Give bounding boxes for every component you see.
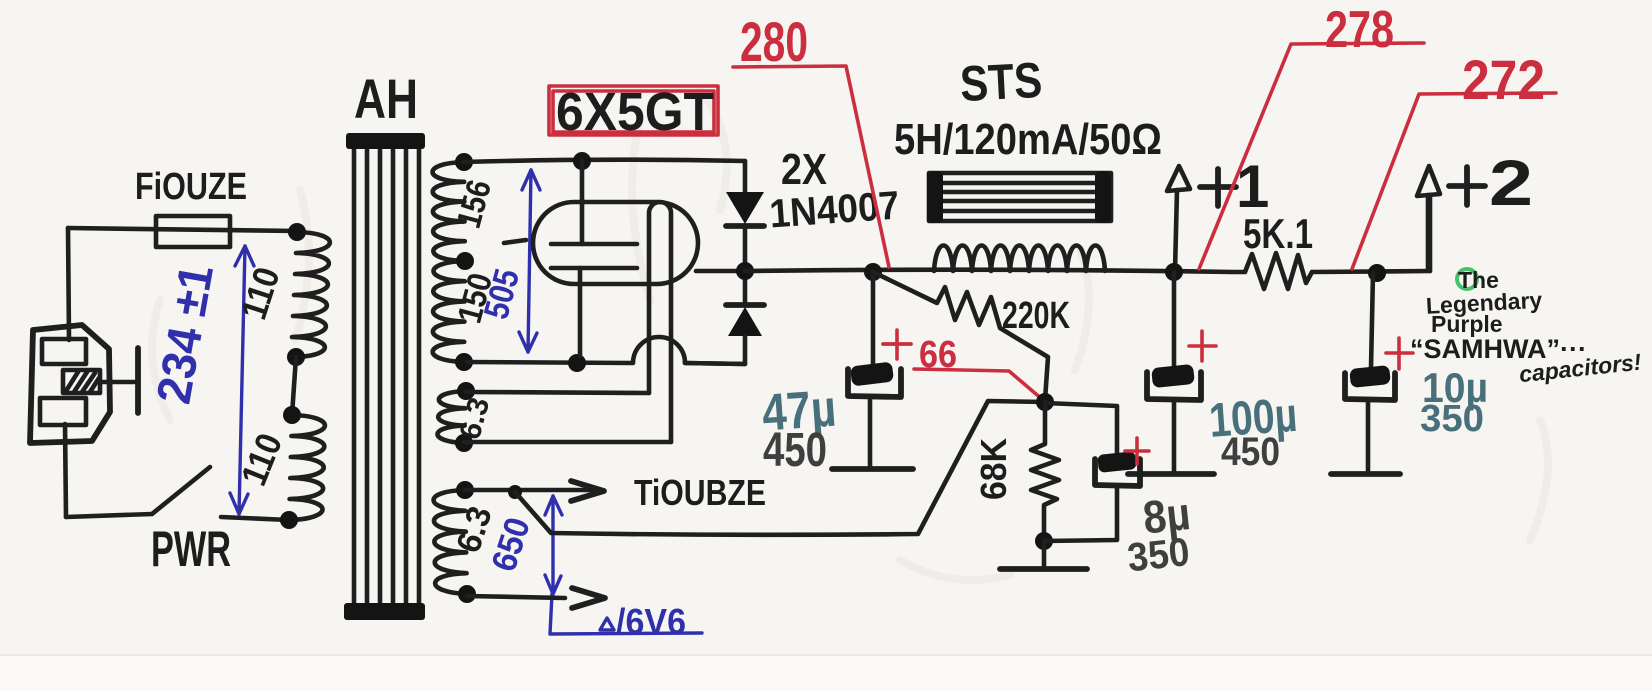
transformer T1 core [344, 133, 425, 620]
choke L1 coil [934, 246, 1105, 272]
capacitor C1 47µ wiring [871, 272, 876, 366]
cathode lead to diode node [696, 269, 745, 274]
svg-text:AH: AH [354, 67, 418, 130]
node bias bottom junction [1035, 532, 1053, 550]
arrowhead 6V6 [572, 588, 605, 608]
svg-text:280: 280 [740, 10, 808, 73]
svg-text:272: 272 [1462, 48, 1545, 111]
capacitor C4 10µ [1349, 365, 1391, 388]
red polarity + (C2) [1125, 438, 1149, 464]
note: The Legendary Purple SAMHWA capacitors [1410, 267, 1643, 387]
blue measurement arrow 505 [519, 170, 540, 352]
long heater wire to bias node [515, 401, 1045, 535]
svg-text:2X: 2X [781, 145, 827, 194]
diode D2 1N4007 [743, 271, 748, 304]
tube anode plate 2 [551, 266, 637, 271]
capacitor C1 47µ [850, 362, 894, 387]
HV secondary lower (150) [433, 261, 465, 362]
anode 2 lead [578, 268, 583, 356]
svg-text:STS: STS [959, 52, 1044, 112]
wire fuse line [68, 228, 297, 231]
blue measurement arrow 650 [545, 496, 702, 634]
rectifier tube V1 6X5GT envelope [533, 202, 698, 284]
svg-text:5H/120mA/50Ω: 5H/120mA/50Ω [894, 115, 1162, 164]
svg-text:350: 350 [1125, 530, 1191, 580]
plug pin top [42, 339, 86, 364]
red frame 6X5GT [549, 86, 718, 135]
node: rectifier output junction [736, 262, 754, 280]
capacitor C3 100µ wiring [1172, 272, 1177, 367]
main B+ rail [745, 270, 1232, 272]
svg-text:450: 450 [1221, 430, 1280, 474]
diode D1 1N4007 [743, 161, 748, 192]
capacitor C2 8µ [1097, 451, 1137, 473]
red annotation 278 [1199, 1, 1424, 269]
capacitor C3 100µ [1151, 364, 1195, 388]
ground (C1) [832, 466, 913, 472]
node bias junction [1036, 393, 1054, 411]
plug pin bottom [40, 398, 86, 425]
paper texture (faint wrinkles) [152, 90, 1548, 580]
svg-text:6X5GT: 6X5GT [556, 82, 714, 142]
output +1 arrow [1175, 190, 1177, 271]
wire plug top to fuse [68, 228, 69, 340]
tube anode plate 1 [551, 242, 637, 247]
choke L1 core [927, 171, 1111, 223]
blue measurement arrow 234±1 [230, 246, 254, 514]
plug mating contact bar [100, 380, 134, 385]
wire to 6V6 arrow [467, 596, 565, 598]
arrowhead TIOUBZE [571, 481, 604, 501]
red polarity + (C1) [883, 330, 911, 359]
wire 5K1 to node2 [1312, 271, 1430, 272]
heater winding 6.3 (rectifier) [438, 391, 466, 443]
svg-text:450: 450 [763, 424, 827, 477]
heater winding 6.3 (output tubes) [434, 490, 467, 594]
plug earth pin (hatched) [63, 370, 100, 393]
red polarity + (C3) [1189, 331, 1216, 361]
wire plug bottom to switch [65, 424, 66, 517]
ground (R3) [1042, 541, 1047, 567]
tube neck / heater pins [649, 202, 671, 442]
output +2 arrow [1426, 195, 1431, 270]
red annotation +66 [883, 334, 1043, 400]
node +1 junction [1165, 263, 1183, 281]
label +1 [1200, 169, 1236, 206]
anode 1 lead [580, 161, 585, 244]
HV secondary upper (156) [433, 162, 465, 261]
red annotation 280 [733, 10, 889, 267]
primary winding lower (110) [289, 415, 325, 520]
svg-text:278: 278 [1325, 1, 1394, 59]
svg-text:68K: 68K [973, 438, 1014, 500]
svg-text:TiOUBZE: TiOUBZE [634, 472, 766, 513]
heater wire upper to tube [466, 392, 649, 393]
svg-text:FiOUZE: FiOUZE [135, 166, 247, 208]
label 6V6 (blue) [600, 618, 614, 630]
series link between primary halves [292, 357, 296, 415]
svg-text:/6V6: /6V6 [616, 601, 686, 642]
junction dots primary upper [288, 223, 306, 241]
red annotation 272 [1352, 48, 1556, 269]
ground (C3) [1128, 471, 1214, 477]
top anode rail [464, 160, 745, 162]
capacitor C2 8µ wiring [1045, 403, 1117, 455]
svg-text:2: 2 [1489, 147, 1533, 219]
tick mark near 505 [504, 240, 526, 243]
mains plug P1 body [30, 325, 110, 443]
wire to TIOUBZE arrow [465, 488, 598, 493]
svg-text:PWR: PWR [151, 521, 231, 577]
label +2 [1449, 167, 1485, 205]
svg-text:5K.1: 5K.1 [1243, 210, 1313, 257]
resistor R2 5K.1 [1232, 253, 1312, 289]
heater wire lower to tube [464, 440, 671, 445]
red polarity + (C4) [1386, 338, 1413, 369]
bottom anode rail with hop [467, 337, 745, 364]
svg-text:220K: 220K [1002, 295, 1070, 337]
primary winding upper (110) [291, 232, 330, 357]
ground (C4) [1331, 471, 1400, 477]
resistor R3 68K [1031, 402, 1059, 540]
switch PWR [66, 514, 152, 517]
resistor R1 220K [873, 272, 1048, 400]
fuse F1 [156, 216, 230, 247]
capacitor C4 10µ wiring [1428, 195, 1433, 271]
svg-text:350: 350 [1420, 398, 1484, 440]
